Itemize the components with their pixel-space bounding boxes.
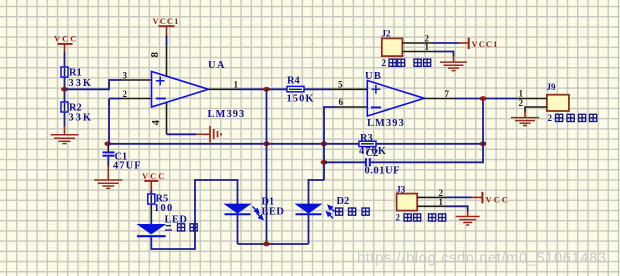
svg-text:VCC1: VCC1 xyxy=(153,16,180,26)
svg-text:1: 1 xyxy=(439,197,444,207)
svg-text:VCC1: VCC1 xyxy=(472,39,499,49)
svg-text:VCC: VCC xyxy=(142,171,166,181)
diode D2 xyxy=(296,196,370,219)
junction xyxy=(321,142,328,147)
svg-text:LED: LED xyxy=(262,207,285,218)
svg-text:J9: J9 xyxy=(547,82,557,92)
LED (indicator diode) xyxy=(137,215,197,237)
junction xyxy=(263,87,270,92)
junction xyxy=(61,87,68,92)
power port VCC1 xyxy=(458,38,498,50)
svg-text:R4: R4 xyxy=(287,76,300,87)
svg-text:2: 2 xyxy=(123,89,128,99)
svg-text:0.01UF: 0.01UF xyxy=(365,166,401,177)
pin 1 xyxy=(209,80,239,90)
wire xyxy=(108,99,110,144)
pin 3 xyxy=(120,70,152,80)
wire xyxy=(371,99,483,163)
connector J9 xyxy=(547,82,597,123)
svg-text:1: 1 xyxy=(425,42,430,52)
wire xyxy=(238,243,309,245)
capacitor C1 xyxy=(103,145,142,172)
wire xyxy=(324,161,365,163)
ground xyxy=(51,126,79,144)
ground xyxy=(440,56,467,71)
svg-text:5: 5 xyxy=(338,79,343,89)
pin 6 xyxy=(337,97,367,107)
junction xyxy=(480,96,487,101)
svg-text:D2: D2 xyxy=(337,196,350,207)
op-amp UB xyxy=(365,71,424,129)
svg-text:7: 7 xyxy=(445,89,450,99)
wire xyxy=(237,215,239,244)
svg-text:6: 6 xyxy=(339,97,344,107)
wire xyxy=(64,52,66,102)
svg-text:2: 2 xyxy=(519,98,524,108)
wire xyxy=(239,88,288,90)
power port VCC1 xyxy=(153,16,180,35)
wire xyxy=(108,143,483,145)
wire xyxy=(150,219,152,226)
svg-text:47UF: 47UF xyxy=(113,161,142,172)
ground xyxy=(511,112,539,126)
wire xyxy=(151,180,237,249)
pin 5 xyxy=(331,79,367,89)
wire xyxy=(166,35,168,45)
pin 2 xyxy=(519,98,547,113)
svg-text:LM393: LM393 xyxy=(367,118,405,129)
pin 1 xyxy=(402,42,433,52)
pin 7 xyxy=(424,89,455,99)
resistor R2 xyxy=(61,102,93,124)
junction xyxy=(263,242,270,247)
wire xyxy=(150,204,152,219)
junction xyxy=(263,142,270,147)
svg-text:J3: J3 xyxy=(396,184,406,194)
svg-text:UB: UB xyxy=(365,71,382,82)
wire xyxy=(433,52,454,57)
svg-text:UA: UA xyxy=(208,60,226,71)
svg-text:3: 3 xyxy=(123,70,128,80)
svg-text:C2: C2 xyxy=(366,148,379,159)
pin 4 xyxy=(150,103,167,135)
connector J2 xyxy=(382,29,431,68)
wire xyxy=(65,80,122,89)
svg-text:150K: 150K xyxy=(287,93,315,104)
svg-text:https://blog.csdn.net/m0_51061: https://blog.csdn.net/m0_51061483 xyxy=(357,251,607,267)
pin 2 xyxy=(121,89,152,99)
svg-text:VCC: VCC xyxy=(54,34,78,44)
wire xyxy=(308,215,310,244)
svg-text:8: 8 xyxy=(149,52,161,58)
power port VCC xyxy=(471,192,510,205)
wire xyxy=(304,88,331,90)
connector J3 xyxy=(396,184,446,222)
wire xyxy=(109,98,121,100)
ground xyxy=(94,166,122,188)
capacitor C2 xyxy=(365,148,401,176)
svg-text:R1: R1 xyxy=(69,68,82,79)
svg-text:33K: 33K xyxy=(69,78,93,89)
wire xyxy=(455,98,517,100)
wire xyxy=(433,42,459,44)
svg-text:2: 2 xyxy=(548,113,553,123)
svg-text:J2: J2 xyxy=(382,29,392,39)
power port VCC xyxy=(142,171,166,190)
wire xyxy=(167,133,197,135)
wire xyxy=(324,107,337,180)
resistor R4 xyxy=(287,76,315,105)
junction xyxy=(321,160,328,165)
svg-text:2: 2 xyxy=(382,58,387,68)
wire xyxy=(64,112,66,127)
svg-text:R3: R3 xyxy=(360,133,373,144)
diode D1 xyxy=(225,196,285,219)
op-amp UA xyxy=(152,60,246,120)
ground xyxy=(456,211,480,225)
ground xyxy=(196,126,221,142)
wire xyxy=(447,196,472,198)
svg-text:4: 4 xyxy=(150,120,162,126)
pin 8 xyxy=(149,45,167,77)
wire xyxy=(150,190,152,194)
svg-text:VCC: VCC xyxy=(486,195,510,205)
wire xyxy=(447,206,468,211)
junction xyxy=(104,142,111,147)
pin 1 xyxy=(517,88,547,98)
pin 2 xyxy=(417,188,447,198)
wire xyxy=(266,89,268,244)
svg-text:1: 1 xyxy=(234,80,239,90)
svg-text:LM393: LM393 xyxy=(208,109,246,120)
pin 1 xyxy=(417,197,447,207)
power port VCC xyxy=(54,34,78,52)
junction xyxy=(480,142,487,147)
resistor R1 xyxy=(61,67,93,89)
svg-text:33K: 33K xyxy=(69,113,93,124)
pin 2 xyxy=(402,34,433,44)
svg-text:100: 100 xyxy=(154,203,174,214)
wire xyxy=(309,180,325,205)
resistor R3 xyxy=(359,133,387,157)
svg-text:2: 2 xyxy=(396,213,401,223)
resistor R5 xyxy=(148,193,174,213)
